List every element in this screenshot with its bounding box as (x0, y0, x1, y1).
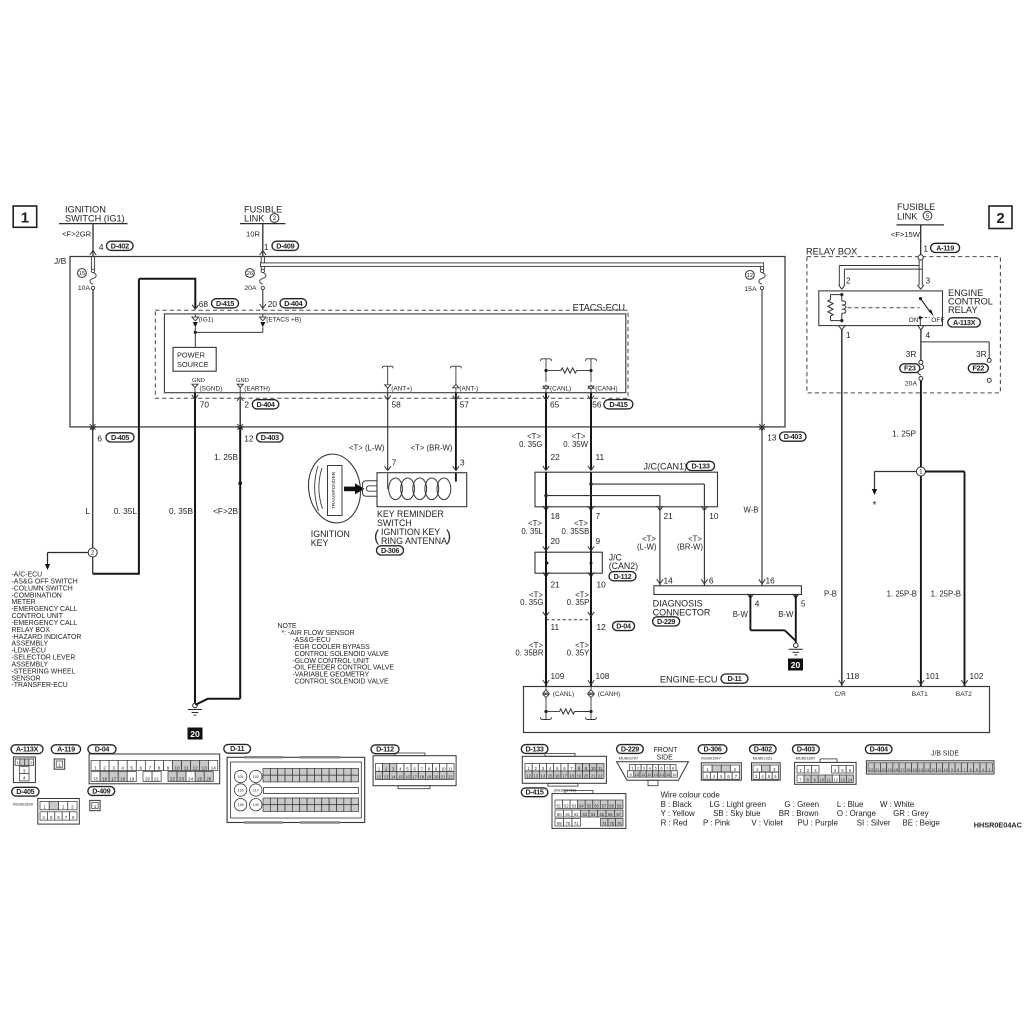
svg-text:60: 60 (557, 812, 562, 817)
svg-text:MU801857: MU801857 (796, 756, 816, 761)
labels 1.25P-B (887, 589, 961, 598)
svg-text:2: 2 (273, 216, 277, 222)
diagnosis exits 4 5 (747, 594, 806, 608)
svg-text:18: 18 (569, 773, 574, 778)
wire fuse 15 to J/B bottom (92, 290, 94, 427)
relay box dashed outline (807, 257, 1001, 393)
hollow feed wire to relay pins 2 and 3 (839, 260, 924, 289)
svg-text:BAT1: BAT1 (912, 691, 928, 698)
label 0.35BR (515, 641, 544, 658)
wire F23 to node 1 (920, 381, 922, 468)
svg-text:18: 18 (551, 511, 561, 521)
svg-text:D-306: D-306 (381, 546, 399, 555)
label ENGINE-ECU D-11 (660, 674, 748, 685)
label 12 D-403 (244, 433, 283, 444)
label 0.35Y (567, 641, 590, 658)
svg-text:3: 3 (112, 765, 115, 770)
transponder in key (328, 466, 343, 516)
svg-text:TRANSPONDER: TRANSPONDER (331, 471, 337, 509)
label 70 (200, 400, 210, 410)
svg-text:58: 58 (609, 803, 614, 808)
svg-text:67: 67 (616, 812, 621, 817)
svg-text:LINK: LINK (244, 214, 265, 224)
svg-text:(L-W): (L-W) (637, 543, 657, 552)
svg-text:102: 102 (970, 671, 984, 681)
J/C CAN1 internal wires (544, 472, 704, 507)
svg-text:13: 13 (841, 777, 846, 782)
labels B-W (733, 610, 794, 619)
svg-text:F22: F22 (973, 364, 985, 373)
svg-text:(ANT-): (ANT-) (459, 386, 478, 393)
connector D-402 (750, 745, 781, 781)
svg-text:53: 53 (572, 803, 577, 808)
svg-text:6: 6 (97, 433, 102, 443)
svg-text:LINK: LINK (897, 211, 918, 221)
svg-text:21: 21 (441, 774, 446, 779)
svg-text:W-B: W-B (743, 505, 758, 514)
svg-text:<F>15W: <F>15W (891, 230, 921, 239)
svg-text:4: 4 (982, 768, 984, 772)
power bus from fusible link 2 (260, 257, 763, 270)
junction dot on earth wire (238, 481, 242, 485)
wire node 2 to unit list (45, 553, 88, 571)
svg-text:D-306: D-306 (704, 745, 722, 754)
label P-B (824, 589, 837, 598)
svg-text:SIDE: SIDE (657, 754, 673, 761)
svg-text:3: 3 (23, 768, 26, 773)
svg-text:BE : Beige: BE : Beige (903, 818, 941, 827)
wire relay pin 4 down (920, 330, 922, 361)
node 2 circle (88, 548, 97, 557)
connector D-112 (371, 745, 456, 789)
svg-text:20: 20 (584, 773, 589, 778)
svg-text:16: 16 (906, 768, 910, 772)
labels 20 9 (551, 536, 601, 546)
wire pin 2 EARTH (237, 393, 243, 427)
svg-text:70: 70 (200, 400, 210, 410)
drawing number (974, 820, 1023, 829)
svg-text:MU801839: MU801839 (13, 802, 33, 807)
label pin 3 (460, 457, 465, 467)
node 1 circle (916, 467, 925, 476)
svg-text:D-403: D-403 (784, 432, 802, 441)
svg-text:9: 9 (167, 765, 170, 770)
svg-text:1: 1 (631, 766, 633, 771)
svg-text:3R: 3R (906, 349, 917, 359)
svg-text:11: 11 (827, 777, 832, 782)
svg-text:68: 68 (199, 299, 209, 309)
svg-text:Wire colour code: Wire colour code (661, 791, 721, 800)
label J/C (CAN2) D-112 (609, 552, 638, 580)
connector D-415 (521, 788, 626, 829)
wire JC1-10 to diagnosis 6 (701, 507, 707, 586)
svg-text:1: 1 (94, 765, 97, 770)
svg-text:5: 5 (976, 768, 978, 772)
svg-text:L: L (85, 506, 90, 516)
svg-text:15: 15 (913, 768, 917, 772)
svg-text:1. 25B: 1. 25B (214, 452, 238, 462)
svg-text:Y : Yellow: Y : Yellow (661, 809, 695, 818)
note block (278, 623, 395, 685)
direction arrow ETACS+B (260, 322, 265, 332)
svg-text:GND: GND (236, 378, 249, 384)
svg-text:11: 11 (641, 772, 645, 777)
svg-text:14: 14 (211, 765, 217, 770)
svg-text:16: 16 (672, 772, 676, 777)
svg-text:9: 9 (596, 536, 601, 546)
label (L-W) (637, 534, 657, 551)
wire diagnosis 5 to ground (795, 595, 797, 644)
svg-text:14: 14 (664, 575, 674, 585)
svg-text:D-04: D-04 (616, 622, 631, 631)
label 0.35B (169, 506, 193, 516)
svg-text:FRONT: FRONT (654, 747, 679, 754)
svg-text:A-113X: A-113X (16, 745, 39, 754)
engine control relay box (819, 291, 943, 326)
svg-text:D-403: D-403 (261, 433, 279, 442)
svg-text:3: 3 (926, 276, 931, 286)
label 13 D-403 (767, 432, 806, 443)
wire fuse12 to diagnosis 16 (759, 424, 765, 586)
svg-text:<T> (BR-W): <T> (BR-W) (410, 443, 452, 452)
svg-text:7: 7 (963, 768, 965, 772)
relay coil parallel resistor (828, 295, 842, 321)
svg-text:19: 19 (577, 773, 582, 778)
label J/B (54, 256, 67, 266)
wire ANT- label (410, 443, 452, 452)
svg-text:3: 3 (643, 766, 645, 771)
svg-text:10: 10 (597, 579, 607, 589)
svg-text:O : Orange: O : Orange (837, 809, 877, 818)
pin ANT+ symbol (382, 366, 412, 393)
svg-text:RING ANTENNA: RING ANTENNA (381, 536, 447, 546)
svg-text:10: 10 (709, 511, 719, 521)
wire pin 58 ANT+ (385, 393, 391, 471)
svg-text:D-415: D-415 (216, 299, 234, 308)
svg-text:5: 5 (130, 765, 133, 770)
label 0.35G mid (520, 590, 543, 607)
relay coil (840, 293, 846, 322)
key blade notch (363, 481, 378, 496)
pin CANL symbol (543, 385, 571, 393)
ground for diagnosis (789, 643, 803, 655)
svg-text:108: 108 (596, 671, 610, 681)
svg-text:76: 76 (617, 821, 622, 826)
label RELAY BOX (806, 247, 857, 257)
fuse F23 3R 20A (900, 349, 924, 388)
svg-text:*: * (873, 500, 877, 511)
wire diagnosis 4 to ground (750, 595, 795, 641)
label W-B (743, 505, 758, 514)
svg-text:16: 16 (555, 773, 560, 778)
key insert arrow (344, 483, 365, 494)
svg-text:14: 14 (391, 774, 396, 779)
junction block J/B box (70, 257, 785, 427)
svg-text:6: 6 (660, 766, 662, 771)
label 0.35L (114, 506, 137, 516)
svg-text:V : Violet: V : Violet (751, 818, 783, 827)
svg-text:56: 56 (592, 400, 602, 410)
svg-text:66: 66 (608, 812, 613, 817)
svg-text:POWER: POWER (177, 350, 205, 359)
J/C CAN1 box (535, 472, 718, 507)
svg-text:LG : Light green: LG : Light green (709, 800, 766, 809)
svg-text:6: 6 (970, 768, 972, 772)
svg-text:61: 61 (565, 812, 570, 817)
pin CANH symbol (588, 385, 618, 393)
label 65 (550, 400, 560, 410)
svg-text:SWITCH (IG1): SWITCH (IG1) (65, 214, 125, 224)
svg-text:18: 18 (894, 768, 898, 772)
wire node1 to BAT1 (918, 476, 924, 687)
svg-text:0. 35L: 0. 35L (521, 527, 543, 536)
index box 2 (989, 206, 1012, 229)
svg-text:C/R: C/R (835, 691, 847, 698)
svg-text:L : Blue: L : Blue (837, 800, 864, 809)
fuse 12 (15A) (744, 269, 765, 293)
fusible link 5 header (897, 202, 945, 225)
label 2 D-404 (244, 400, 278, 410)
ground for SGND wire (188, 703, 202, 715)
svg-text:20A: 20A (244, 285, 257, 292)
svg-text:20A: 20A (905, 381, 918, 388)
connector D-229 (617, 744, 689, 785)
svg-text:D-229: D-229 (621, 744, 639, 753)
svg-text:7: 7 (596, 511, 601, 521)
svg-text:HHSR0E04AC: HHSR0E04AC (974, 820, 1023, 829)
ETACS-ECU solid box (164, 314, 625, 393)
internal power bus wire (194, 331, 263, 348)
svg-text:2: 2 (637, 766, 639, 771)
direction arrow IG1 (193, 322, 198, 332)
svg-text:55: 55 (587, 803, 592, 808)
svg-text:ENGINE-ECU: ENGINE-ECU (660, 675, 718, 685)
svg-text:116: 116 (238, 789, 244, 793)
pin GND EARTH symbol (236, 378, 270, 393)
svg-text:GND: GND (192, 378, 205, 384)
pin ANT- symbol (450, 366, 478, 393)
connector D-403 (793, 745, 857, 785)
engine ecu pin CANH symbol (588, 687, 620, 699)
svg-text:15: 15 (398, 774, 403, 779)
svg-text:20: 20 (145, 776, 151, 781)
svg-text:D-405: D-405 (16, 787, 34, 796)
labels 21 10 below JC2 (551, 579, 607, 589)
svg-text:19: 19 (888, 768, 892, 772)
svg-text:17: 17 (900, 768, 904, 772)
svg-text:PU : Purple: PU : Purple (798, 818, 839, 827)
svg-text:BAT2: BAT2 (956, 691, 972, 698)
svg-text:1: 1 (94, 804, 97, 809)
POWER SOURCE box (173, 347, 216, 371)
svg-text:58: 58 (392, 400, 402, 410)
svg-text:(CAN2): (CAN2) (609, 561, 638, 571)
svg-text:D-04: D-04 (95, 745, 110, 754)
svg-text:118: 118 (846, 671, 860, 681)
svg-text:8: 8 (957, 768, 959, 772)
svg-text:13: 13 (925, 768, 929, 772)
label ETACS-ECU (573, 303, 625, 313)
svg-text:MU801331: MU801331 (753, 756, 773, 761)
svg-text:ETACS-ECU: ETACS-ECU (573, 303, 625, 313)
ENGINE-ECU box (524, 687, 990, 733)
wire 12 D-403 EARTH to ground (195, 424, 243, 705)
label 1.25P (892, 429, 916, 439)
svg-text:14: 14 (541, 773, 546, 778)
svg-text:G : Green: G : Green (784, 800, 819, 809)
svg-text:10: 10 (591, 766, 596, 771)
svg-text:15: 15 (93, 776, 99, 781)
connector D-11 (224, 744, 365, 822)
svg-text:A-113X: A-113X (953, 318, 976, 327)
svg-text:12: 12 (526, 773, 531, 778)
svg-text:1. 25P: 1. 25P (892, 429, 916, 439)
svg-text:(ANT+): (ANT+) (391, 386, 412, 393)
key reminder switch box (377, 473, 467, 507)
svg-text:(ETACS +B): (ETACS +B) (266, 317, 301, 324)
svg-text:57: 57 (602, 803, 607, 808)
label 58 (392, 400, 402, 410)
svg-text:RELAY BOX: RELAY BOX (806, 247, 857, 257)
svg-text:12: 12 (747, 273, 753, 279)
label engine control relay (948, 288, 993, 327)
svg-text:SOURCE: SOURCE (177, 360, 209, 369)
svg-text:12: 12 (597, 622, 607, 632)
svg-text:2: 2 (103, 765, 106, 770)
label 57 (460, 400, 470, 410)
wire node1 to star units (872, 472, 917, 512)
svg-text:0. 35SB: 0. 35SB (562, 527, 590, 536)
relay feed entry circle (918, 255, 923, 260)
label <F>15W (891, 230, 921, 239)
svg-text:0. 35BR: 0. 35BR (515, 649, 544, 658)
svg-text:10: 10 (944, 768, 948, 772)
svg-text:D-133: D-133 (691, 462, 709, 471)
wire fuse 26 to ETACS +B pin (260, 290, 266, 310)
svg-text:21: 21 (551, 579, 561, 589)
svg-text:4: 4 (121, 765, 124, 770)
label 4 D-402 (99, 241, 133, 252)
diagnosis connector box (654, 586, 802, 595)
svg-text:74: 74 (602, 821, 607, 826)
svg-text:16: 16 (102, 776, 108, 781)
svg-text:65: 65 (599, 812, 604, 817)
connector D-404 (865, 745, 994, 774)
svg-text:0. 35B: 0. 35B (169, 506, 193, 516)
branch to fuse F22 (921, 342, 989, 359)
svg-text:145: 145 (253, 803, 259, 807)
label 0.35W top (563, 432, 588, 449)
svg-text:26: 26 (206, 776, 212, 781)
svg-text:1: 1 (919, 469, 923, 476)
svg-text:109: 109 (551, 671, 565, 681)
svg-text:13: 13 (202, 765, 208, 770)
svg-text:15: 15 (79, 271, 85, 277)
svg-text:63: 63 (582, 812, 587, 817)
wire pin 70 SGND to ground (192, 393, 198, 704)
label L (85, 506, 90, 516)
svg-text:22: 22 (869, 768, 873, 772)
svg-text:62: 62 (574, 812, 579, 817)
svg-text:22: 22 (598, 773, 603, 778)
svg-text:11: 11 (184, 765, 189, 770)
svg-text:7: 7 (666, 766, 668, 771)
svg-text:0. 35L: 0. 35L (114, 506, 137, 516)
svg-text:54: 54 (579, 803, 584, 808)
svg-text:20: 20 (268, 299, 278, 309)
svg-text:11: 11 (448, 766, 453, 771)
svg-text:GR : Grey: GR : Grey (893, 809, 929, 818)
index box 1 (13, 206, 37, 227)
svg-text:5: 5 (801, 598, 806, 608)
svg-text:3: 3 (988, 768, 990, 772)
svg-text:(MU803766): (MU803766) (554, 788, 577, 793)
svg-text:22: 22 (551, 452, 561, 462)
pin IG1 symbol (192, 314, 213, 324)
svg-text:D-404: D-404 (870, 745, 888, 754)
svg-text:(SGND): (SGND) (200, 386, 223, 393)
svg-text:23: 23 (179, 776, 185, 781)
svg-text:D-112: D-112 (614, 572, 632, 581)
svg-text:25: 25 (197, 776, 203, 781)
label 11 (596, 452, 605, 462)
pin GND SGND symbol (192, 378, 222, 393)
svg-text:ON: ON (909, 317, 919, 324)
wire pin 65 CANL (543, 393, 549, 471)
svg-text:(CANL): (CANL) (550, 386, 571, 393)
svg-text:11: 11 (598, 766, 603, 771)
label 1 D-409 (264, 241, 299, 252)
svg-text:J/B SIDE: J/B SIDE (931, 750, 959, 757)
svg-text:0. 35P: 0. 35P (567, 598, 590, 607)
svg-text:1: 1 (923, 243, 928, 253)
connector D-405 (12, 787, 80, 824)
labels ON OFF (909, 317, 945, 324)
svg-text:1: 1 (21, 210, 29, 227)
svg-text:12: 12 (931, 768, 935, 772)
svg-text:<F>2B: <F>2B (213, 506, 238, 516)
svg-text:65: 65 (550, 400, 560, 410)
svg-text:(CANH): (CANH) (598, 691, 620, 698)
svg-text:(: ( (374, 528, 380, 545)
svg-text:64: 64 (591, 812, 596, 817)
svg-text:12: 12 (193, 765, 199, 770)
label diagnosis connector (653, 598, 711, 626)
svg-text:(BR-W): (BR-W) (677, 543, 703, 552)
label 68 D-415 (199, 299, 239, 309)
svg-text:3R: 3R (976, 349, 987, 359)
svg-text:D-403: D-403 (797, 745, 815, 754)
connector D-409 (88, 786, 115, 810)
ignition switch (IG1) header (59, 205, 128, 224)
wire fusible link 2 to J/B (260, 224, 266, 257)
svg-text:(CANL): (CANL) (553, 691, 574, 698)
svg-text:SB : Sky blue: SB : Sky blue (713, 809, 761, 818)
svg-text:D-402: D-402 (754, 745, 772, 754)
svg-text:21: 21 (875, 768, 879, 772)
label 10R (246, 230, 260, 239)
svg-text:B-W: B-W (778, 610, 794, 619)
wire pin 56 CANH (588, 393, 594, 471)
svg-text:2: 2 (91, 550, 95, 557)
J/C CAN1 exit arrows (543, 506, 708, 510)
wire into pin 68 IG1 (from node 2) (139, 278, 199, 310)
connector A-119 (51, 745, 80, 770)
svg-text:19: 19 (129, 776, 135, 781)
svg-text:D-415: D-415 (526, 788, 544, 797)
svg-text:17: 17 (111, 776, 117, 781)
svg-text:D-404: D-404 (284, 299, 302, 308)
